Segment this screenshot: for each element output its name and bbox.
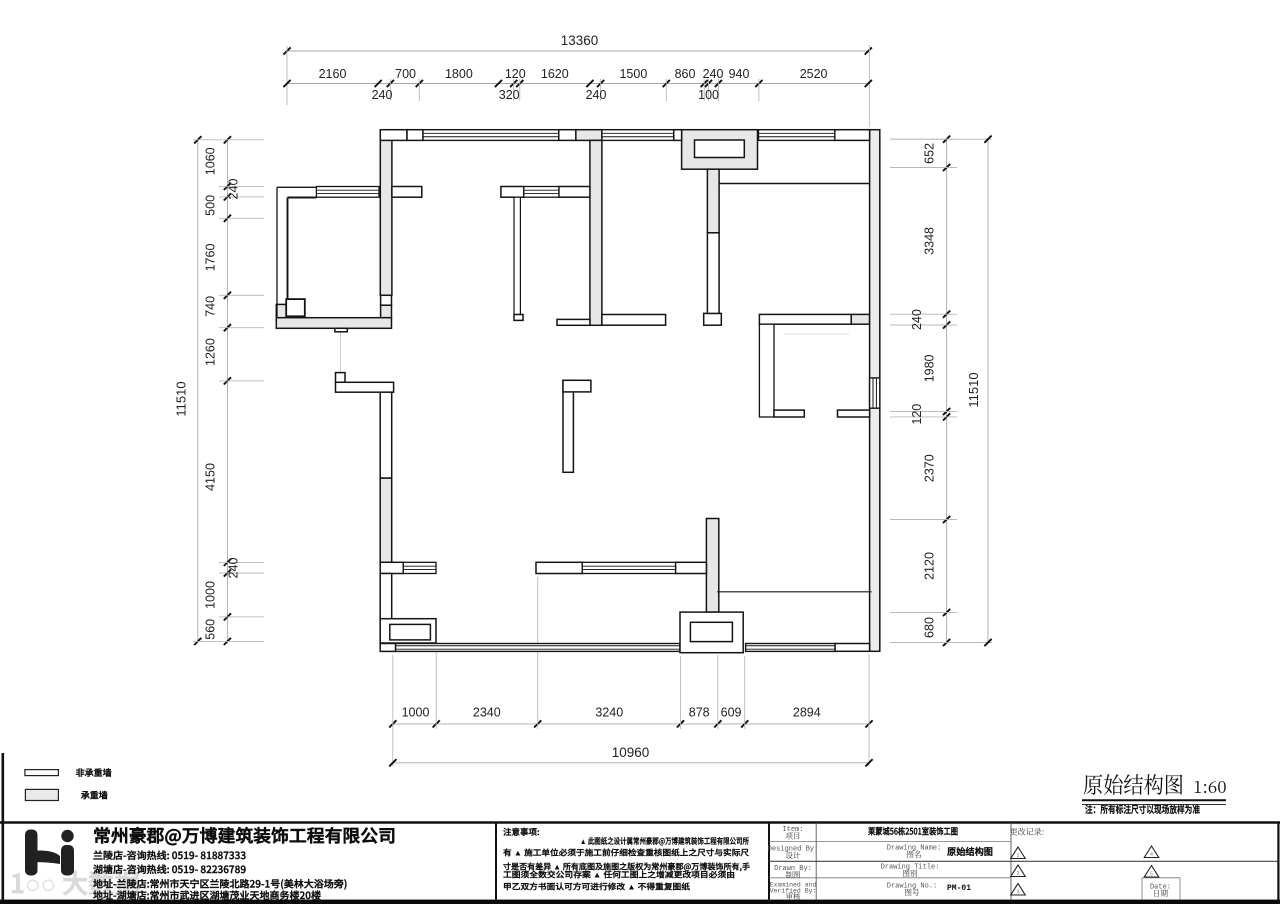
- svg-text:地址-湖塘店:常州市武进区湖塘茂业天地商务楼20楼: 地址-湖塘店:常州市武进区湖塘茂业天地商务楼20楼: [93, 887, 322, 902]
- svg-text:2: 2: [1017, 871, 1020, 877]
- svg-text:3: 3: [1017, 890, 1020, 896]
- svg-text:项目: 项目: [786, 831, 801, 842]
- svg-text:设计: 设计: [786, 850, 801, 861]
- svg-text:注：所有标注尺寸以现场放样为准: 注：所有标注尺寸以现场放样为准: [1085, 801, 1200, 816]
- svg-text:240: 240: [703, 67, 724, 81]
- svg-text:制图: 制图: [786, 870, 801, 881]
- svg-text:工图须全数交公司存案 ▲ 任何工图上之增减更改项目: 工图须全数交公司存案 ▲ 任何工图上之增减更改项目必须由: [503, 869, 735, 881]
- svg-text:莱蒙城56栋2501室装饰工图: 莱蒙城56栋2501室装饰工图: [867, 825, 958, 838]
- svg-text:1800: 1800: [445, 67, 473, 81]
- svg-text:1: 1: [1017, 853, 1020, 859]
- svg-text:PM-01: PM-01: [947, 883, 971, 893]
- svg-text:常州豪郡@万博建筑装饰工程有限公司: 常州豪郡@万博建筑装饰工程有限公司: [93, 823, 396, 848]
- svg-text:11510: 11510: [966, 372, 981, 407]
- svg-text:240: 240: [372, 88, 393, 102]
- svg-text:湖塘店-咨询热线: 0519- 82236789: 湖塘店-咨询热线: 0519- 82236789: [93, 861, 246, 876]
- svg-text:500: 500: [204, 195, 218, 216]
- svg-text:1260: 1260: [204, 338, 218, 366]
- svg-text:13360: 13360: [561, 33, 599, 48]
- svg-text:有 ▲ 施工单位必须于施工前仔细检查重核图纸上之尺寸与实: 有 ▲ 施工单位必须于施工前仔细检查重核图纸上之尺寸与实际尺: [502, 847, 750, 859]
- svg-text:940: 940: [729, 67, 750, 81]
- svg-text:原始结构图: 原始结构图: [1083, 769, 1184, 800]
- svg-text:1980: 1980: [923, 354, 937, 382]
- svg-text:609: 609: [721, 706, 742, 720]
- svg-text:2120: 2120: [923, 552, 937, 580]
- svg-text:3240: 3240: [595, 706, 623, 720]
- svg-text:3348: 3348: [923, 227, 937, 255]
- svg-text:100: 100: [698, 88, 719, 102]
- svg-text:1060: 1060: [204, 147, 218, 175]
- svg-text:2370: 2370: [923, 454, 937, 482]
- svg-text:2520: 2520: [800, 67, 828, 81]
- svg-text:图号: 图号: [905, 887, 920, 898]
- svg-text:图名: 图名: [907, 849, 922, 860]
- svg-text:1620: 1620: [541, 67, 569, 81]
- svg-text:2894: 2894: [793, 706, 821, 720]
- svg-text:860: 860: [675, 67, 696, 81]
- svg-text:240: 240: [586, 88, 607, 102]
- svg-text:原始结构图: 原始结构图: [946, 844, 993, 858]
- svg-text:652: 652: [923, 143, 937, 164]
- svg-text:1500: 1500: [619, 67, 647, 81]
- svg-text:图别: 图别: [903, 868, 918, 879]
- svg-text:4: 4: [1150, 852, 1153, 858]
- svg-text:审核: 审核: [786, 891, 801, 902]
- svg-text:1000: 1000: [204, 581, 218, 609]
- svg-text:11510: 11510: [174, 381, 189, 416]
- svg-text:甲乙双方书面认可方可进行修改 ▲ 不得重复图纸: 甲乙双方书面认可方可进行修改 ▲ 不得重复图纸: [503, 881, 691, 893]
- svg-text:日期: 日期: [1153, 888, 1169, 899]
- svg-text:120: 120: [910, 404, 924, 425]
- svg-text:680: 680: [923, 617, 937, 638]
- svg-text:▲ 此图纸之设计属常州豪郡@万博建筑装饰工程有限公司所: ▲ 此图纸之设计属常州豪郡@万博建筑装饰工程有限公司所: [580, 835, 750, 847]
- svg-text:700: 700: [395, 67, 416, 81]
- svg-text:5: 5: [1150, 872, 1153, 878]
- svg-text:240: 240: [227, 179, 241, 200]
- svg-text:1000: 1000: [402, 706, 430, 720]
- svg-text:560: 560: [204, 619, 218, 640]
- svg-text:4150: 4150: [204, 463, 218, 491]
- svg-text:1760: 1760: [204, 244, 218, 272]
- svg-text:2160: 2160: [319, 67, 347, 81]
- svg-text:878: 878: [689, 706, 710, 720]
- svg-text:承重墙: 承重墙: [80, 789, 108, 802]
- svg-text:更改记录:: 更改记录:: [1010, 827, 1045, 838]
- svg-text:320: 320: [499, 88, 520, 102]
- svg-text:120: 120: [505, 67, 526, 81]
- svg-text:10960: 10960: [612, 745, 650, 760]
- svg-text:1:60: 1:60: [1193, 773, 1227, 798]
- svg-text:注意事项:: 注意事项:: [503, 826, 540, 838]
- svg-text:2340: 2340: [473, 706, 501, 720]
- svg-text:740: 740: [204, 296, 218, 317]
- svg-text:兰陵店-咨询热线: 0519- 81887333: 兰陵店-咨询热线: 0519- 81887333: [93, 847, 246, 862]
- svg-text:240: 240: [227, 558, 241, 579]
- svg-text:非承重墙: 非承重墙: [76, 766, 112, 779]
- svg-text:240: 240: [910, 309, 924, 330]
